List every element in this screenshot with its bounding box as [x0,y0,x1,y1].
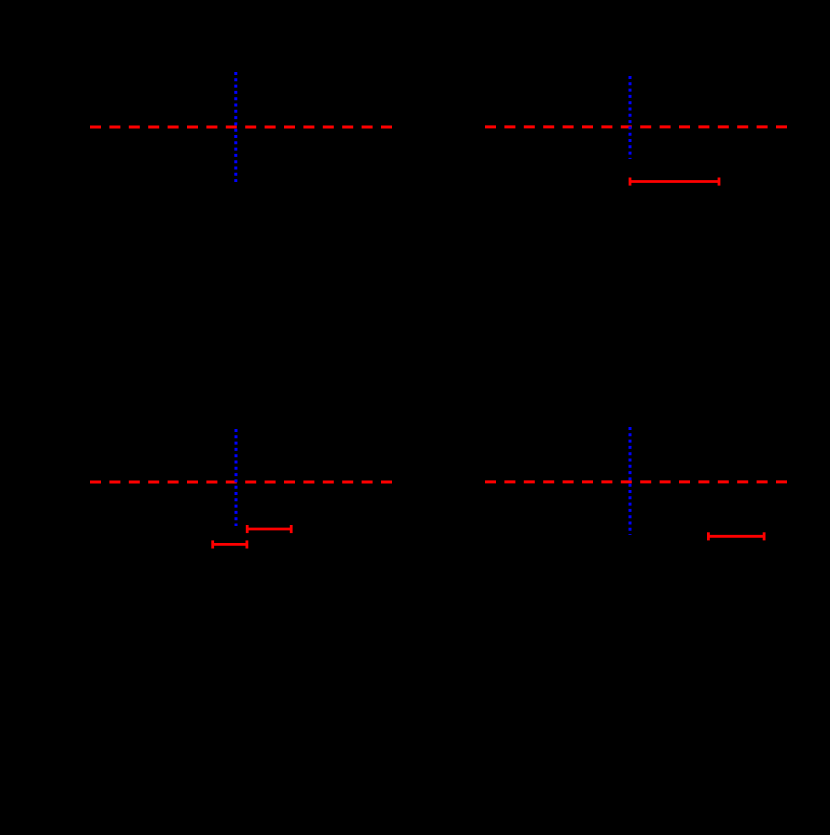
plot 1 (top-left) blue dotted vertical CI line [234,72,237,182]
plot 3 (bottom-left) red dashed reference line h=0 [90,481,392,484]
plot 3 (bottom-left) blue dotted vertical CI line [235,429,238,526]
plot 4 (bottom-right) blue dotted vertical CI line [629,427,632,535]
plot 1 (top-left) red dashed reference line h=0 [90,126,392,129]
plot 2 (top-right) red dashed reference line h=0 [485,125,787,128]
plot 2 (top-right) red horizontal error bar [630,178,719,186]
plot 3 (bottom-left) red horizontal error bar lower [213,540,247,548]
plot 3 (bottom-left) red horizontal error bar upper [247,525,291,533]
plot 4 (bottom-right) red horizontal error bar [708,532,764,540]
plot 2 (top-right) blue dotted vertical CI line [629,76,632,159]
plot 4 (bottom-right) red dashed reference line h=0 [485,480,787,483]
